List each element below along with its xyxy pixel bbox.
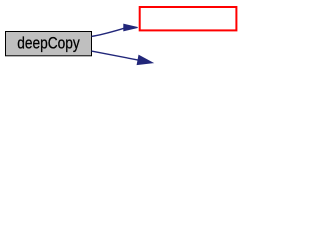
arrowhead 1: [124, 24, 138, 30]
edge deepCopy -> red node: [92, 28, 125, 36]
edge deepCopy -> hidden node: [92, 51, 140, 60]
svg-text:deepCopy: deepCopy: [17, 34, 80, 53]
node (red, truncated): [140, 7, 237, 30]
node deepCopy: [6, 32, 92, 56]
arrowhead 2: [137, 55, 152, 64]
